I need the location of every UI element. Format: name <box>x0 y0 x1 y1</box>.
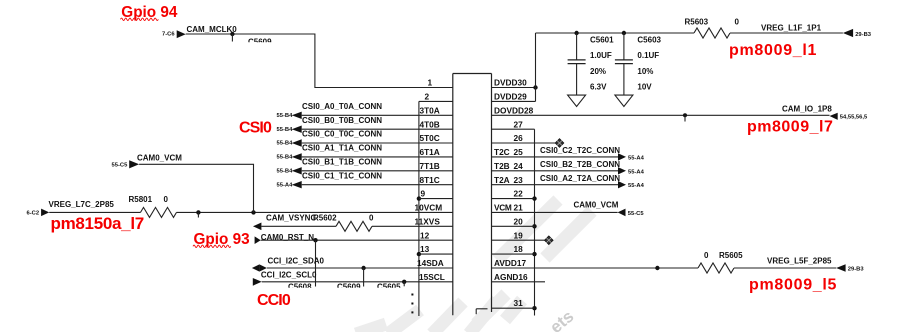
node pin31 junction <box>532 306 536 310</box>
svg-text:0: 0 <box>735 18 740 27</box>
wire DVDD top rail <box>536 32 695 34</box>
svg-text:29-B3: 29-B3 <box>848 267 865 273</box>
port CSI0_B2_T2B_CONN <box>492 160 645 175</box>
svg-text:R5602: R5602 <box>313 214 337 223</box>
svg-text:20%: 20% <box>590 67 606 76</box>
svg-text:CCI_I2C_SDA0: CCI_I2C_SDA0 <box>268 256 325 265</box>
svg-text:CAM_VSYNC: CAM_VSYNC <box>266 214 316 223</box>
svg-text:R5603: R5603 <box>685 18 709 27</box>
resistor R5801 <box>129 195 177 217</box>
wire pin2 stub <box>419 100 453 102</box>
svg-text:0: 0 <box>369 214 374 223</box>
node pin22 junction <box>532 196 536 200</box>
node C5603 tap <box>622 31 626 35</box>
svg-text:CSI0_B0_T0B_CONN: CSI0_B0_T0B_CONN <box>302 116 382 125</box>
svg-text:VREG_L7C_2P85: VREG_L7C_2P85 <box>49 200 115 209</box>
squiggle under Gpio 94 <box>121 18 159 20</box>
capacitor C5601 <box>568 33 615 95</box>
svg-text:6.3V: 6.3V <box>590 83 607 92</box>
svg-text:6-C2: 6-C2 <box>27 211 40 217</box>
capacitor C5603 <box>615 33 662 95</box>
svg-text:C5601: C5601 <box>590 35 614 44</box>
svg-text:23: 23 <box>514 175 524 185</box>
svg-text:0: 0 <box>704 251 709 260</box>
connector J body <box>453 74 492 316</box>
svg-text:55-B4: 55-B4 <box>277 141 294 147</box>
wire pin31 <box>492 307 535 309</box>
port CSI0_A2_T2A_CONN <box>492 174 645 189</box>
svg-text:CSI0_C2_T2C_CONN: CSI0_C2_T2C_CONN <box>540 146 620 155</box>
wire pin29 stub <box>492 100 536 102</box>
svg-text:14SDA: 14SDA <box>417 258 444 268</box>
port CSI0_A0_T0A_CONN <box>277 102 453 119</box>
port CSI0_B1_T1B_CONN <box>277 158 453 175</box>
port CSI0_B0_T0B_CONN <box>277 116 453 133</box>
svg-text:8T1C: 8T1C <box>420 175 440 185</box>
port CSI0_C0_T0C_CONN <box>277 130 453 147</box>
node pin13 junction <box>417 252 421 256</box>
svg-text:55-B4: 55-B4 <box>277 113 294 119</box>
svg-text:55-B4: 55-B4 <box>277 127 294 133</box>
svg-text:26: 26 <box>514 133 524 143</box>
port arrow CAM_VSYNC <box>253 214 374 230</box>
svg-text:3T0A: 3T0A <box>420 105 440 115</box>
wire R5801 to pin10 <box>177 211 453 213</box>
svg-text:55-B4: 55-B4 <box>277 169 294 175</box>
wire R5602 to pin11 <box>372 225 453 227</box>
node C5601 tap <box>574 31 578 35</box>
svg-text:CAM_MCLK0: CAM_MCLK0 <box>187 25 238 34</box>
svg-text:29-B3: 29-B3 <box>855 32 872 38</box>
capacitor labels clipped bottom <box>288 283 401 292</box>
svg-text:18: 18 <box>514 244 524 254</box>
resistor R5602 <box>336 221 372 231</box>
svg-text:20: 20 <box>514 216 524 226</box>
node DVDD30 junction <box>533 85 537 89</box>
node AVDD tap <box>655 266 659 270</box>
port CSI0_C2_T2C_CONN <box>492 146 645 161</box>
pin labels right column <box>494 78 534 309</box>
port arrow VREG_L1F_1P1 29-B3 <box>761 24 872 38</box>
wire SCL to pin15 <box>262 281 453 283</box>
wire AVDD17 net <box>492 267 699 269</box>
svg-text:24: 24 <box>514 161 524 171</box>
svg-text:55-A4: 55-A4 <box>628 169 645 175</box>
wire AGND16 stub <box>492 281 546 283</box>
svg-text:10%: 10% <box>637 67 653 76</box>
wire CAM0_RST_N to pin12 <box>261 239 453 241</box>
junction cap tap SCL <box>402 280 406 287</box>
svg-text:7T1B: 7T1B <box>420 161 440 171</box>
wire pin22 stub <box>492 198 535 200</box>
svg-text:12: 12 <box>420 230 430 240</box>
resistor R5605 <box>698 251 743 273</box>
wire R5603 to VREG_L1F_1P1 <box>730 32 843 34</box>
port arrow CCI_I2C_SDA0 (bidir) <box>252 256 325 271</box>
wire left rail (gnd net) <box>418 101 420 316</box>
svg-text:22: 22 <box>514 189 524 199</box>
svg-text:CAM0_VCM: CAM0_VCM <box>574 201 619 210</box>
ground (C5601) <box>568 95 586 106</box>
wire pin20 stub <box>492 225 535 227</box>
node pin18 junction <box>532 252 536 256</box>
svg-text:CSI0: CSI0 <box>239 120 272 137</box>
svg-text:VCM: VCM <box>494 203 512 213</box>
wire pin9 stub <box>419 198 453 200</box>
svg-text:pm8009_l5: pm8009_l5 <box>749 277 837 294</box>
svg-text:CAM_IO_1P8: CAM_IO_1P8 <box>782 104 832 113</box>
clipped symbol corner below body <box>476 309 487 314</box>
wire SDA to pin14 <box>267 267 453 269</box>
svg-text:55-A4: 55-A4 <box>628 183 645 189</box>
svg-text:55-C5: 55-C5 <box>112 162 129 168</box>
svg-text:21: 21 <box>514 203 524 213</box>
wire CAM0_VCM branch <box>139 164 253 212</box>
svg-text:2: 2 <box>425 92 430 102</box>
svg-text:1.0UF: 1.0UF <box>590 51 612 60</box>
svg-text:4T0B: 4T0B <box>420 119 440 129</box>
wire right lower rail <box>534 129 536 315</box>
svg-text:VREG_L1F_1P1: VREG_L1F_1P1 <box>761 24 822 33</box>
svg-text:T2A: T2A <box>494 175 510 185</box>
wire CAM_MCLK0 <box>186 34 453 88</box>
svg-text:CSI0_B2_T2B_CONN: CSI0_B2_T2B_CONN <box>540 160 620 169</box>
junction cap C5608 tap <box>313 238 317 287</box>
no-connect diamond pin26 <box>555 139 564 148</box>
junction cap tap SDA <box>361 266 365 287</box>
svg-text:CAM0_RST_N: CAM0_RST_N <box>261 233 315 242</box>
port arrow 6-C2 VREG_L7C_2P85 <box>27 200 115 217</box>
svg-text:CCI_I2C_SCL0: CCI_I2C_SCL0 <box>261 270 317 279</box>
squiggle under Gpio 93 <box>193 245 231 247</box>
resistor R5603 <box>685 18 740 39</box>
WATERMARK <box>356 200 592 332</box>
port arrow 55-C5 CAM0_VCM (left) <box>112 153 183 168</box>
svg-text:31: 31 <box>514 298 524 308</box>
svg-text:T2B: T2B <box>494 161 510 171</box>
svg-text:CSI0_A2_T2A_CONN: CSI0_A2_T2A_CONN <box>540 174 620 183</box>
svg-text:19: 19 <box>514 230 524 240</box>
svg-text:CSI0_A0_T0A_CONN: CSI0_A0_T0A_CONN <box>302 102 382 111</box>
wire pin27 stub <box>492 128 535 130</box>
svg-text:9: 9 <box>421 189 426 199</box>
junction cap tap on VCM net <box>196 210 200 217</box>
port arrow CCI_I2C_SCL0 <box>253 270 317 285</box>
ground (C5603) <box>615 95 633 106</box>
svg-text:T2C: T2C <box>494 147 510 157</box>
no-connect diamond pin19 <box>545 236 554 245</box>
svg-text:55-A4: 55-A4 <box>628 155 645 161</box>
svg-text:54,55,56,5: 54,55,56,5 <box>840 115 868 121</box>
svg-text:DOVDD28: DOVDD28 <box>494 105 534 115</box>
node pin20 junction <box>532 224 536 228</box>
svg-text:CSI0_C0_T0C_CONN: CSI0_C0_T0C_CONN <box>302 130 382 139</box>
wire DVDD rail up <box>535 33 537 101</box>
svg-text:DVDD29: DVDD29 <box>494 92 527 102</box>
junction tap on CAM_IO_1P8 <box>683 113 687 121</box>
svg-text:55-C5: 55-C5 <box>628 211 645 217</box>
node pin9 junction <box>417 196 421 200</box>
svg-text:25: 25 <box>514 147 524 157</box>
svg-text:CSI0_A1_T1A_CONN: CSI0_A1_T1A_CONN <box>302 144 382 153</box>
wire pin19 with no-connect <box>492 239 546 241</box>
svg-text:DVDD30: DVDD30 <box>494 78 527 88</box>
svg-text:5T0C: 5T0C <box>420 133 440 143</box>
port arrow 7-C6 CAM_MCLK0 <box>162 25 237 38</box>
svg-text:13: 13 <box>420 244 430 254</box>
svg-text:27: 27 <box>514 119 524 129</box>
port CSI0_A1_T1A_CONN <box>277 144 453 161</box>
svg-text:10VCM: 10VCM <box>415 203 443 213</box>
wire pin30 DVDD stub <box>492 87 536 89</box>
wire pin26 with no-connect <box>492 142 556 144</box>
wire R5605 to VREG_L5F_2P85 <box>734 267 836 269</box>
svg-text:pm8150a_l7: pm8150a_l7 <box>51 214 144 233</box>
svg-text:pm8009_l7: pm8009_l7 <box>747 119 833 136</box>
port arrow CAM_IO_1P8 <box>782 104 868 120</box>
wire DOVDD28 to CAM_IO_1P8 <box>492 114 830 116</box>
svg-text:55-A4: 55-A4 <box>277 182 294 188</box>
svg-text:R5801: R5801 <box>129 195 153 204</box>
svg-text:AGND16: AGND16 <box>494 272 528 282</box>
svg-text:CSI0_B1_T1B_CONN: CSI0_B1_T1B_CONN <box>302 158 382 167</box>
svg-text:10V: 10V <box>637 83 652 92</box>
svg-text:15SCL: 15SCL <box>419 272 445 282</box>
svg-text:AVDD17: AVDD17 <box>494 258 527 268</box>
junction C5609 tap <box>230 32 234 42</box>
svg-text:55-B4: 55-B4 <box>277 155 294 161</box>
port CAM0_VCM (right) <box>492 201 645 217</box>
svg-text:Gpio 94: Gpio 94 <box>121 4 178 21</box>
port arrow VREG_L5F_2P85 29-B3 <box>767 257 864 273</box>
port arrow CAM0_RST_N <box>255 233 315 244</box>
wire pin18 stub <box>492 253 535 255</box>
svg-text:11XVS: 11XVS <box>415 216 441 226</box>
svg-text:CCI0: CCI0 <box>257 292 291 309</box>
capacitor C5609 label (clipped) <box>248 37 272 46</box>
svg-text:CSI0_C1_T1C_CONN: CSI0_C1_T1C_CONN <box>302 171 382 180</box>
svg-text:1: 1 <box>428 78 433 88</box>
svg-text:7-C6: 7-C6 <box>162 31 175 37</box>
pin labels left column <box>415 78 445 282</box>
node CAM0_VCM branch junction <box>251 210 255 214</box>
svg-text:pm8009_l1: pm8009_l1 <box>729 42 817 59</box>
svg-text:VREG_L5F_2P85: VREG_L5F_2P85 <box>767 257 832 266</box>
svg-text:0: 0 <box>164 195 169 204</box>
svg-text:6T1A: 6T1A <box>420 147 440 157</box>
hidden pins dots <box>411 294 413 314</box>
wire pin13 stub <box>419 253 453 255</box>
svg-text:C5603: C5603 <box>637 35 661 44</box>
wire VREG_L7C to R5801 <box>49 211 140 213</box>
svg-text:R5605: R5605 <box>719 251 743 260</box>
port CSI0_C1_T1C_CONN <box>277 171 453 188</box>
svg-text:0.1UF: 0.1UF <box>637 51 659 60</box>
wire VSYNC to R5602 <box>261 225 336 227</box>
svg-text:CAM0_VCM: CAM0_VCM <box>137 153 182 162</box>
